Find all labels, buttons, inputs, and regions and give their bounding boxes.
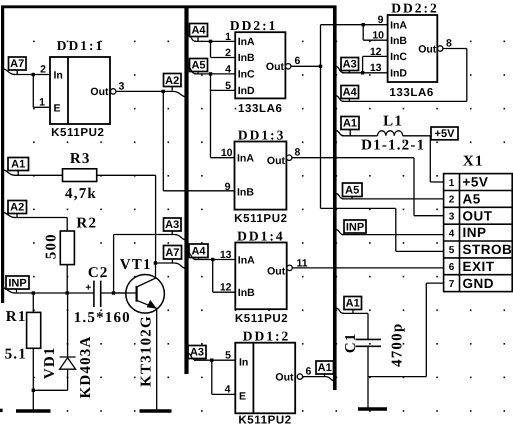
wire A3 mid	[114, 231, 186, 293]
svg-text:6: 6	[449, 262, 455, 273]
svg-text:1: 1	[39, 96, 45, 108]
svg-text:DD1:1: DD1:1	[57, 38, 105, 53]
wire A5 to DD2:1 pins 4,5 and DD1:3 pin 10	[189, 68, 236, 158]
svg-text:1: 1	[449, 178, 455, 189]
svg-text:Out: Out	[418, 43, 437, 55]
svg-text:13: 13	[370, 62, 382, 74]
svg-text:E: E	[239, 391, 246, 403]
wire A4 to DD1:4 pins 13,12	[189, 253, 236, 292]
svg-text:A1: A1	[11, 159, 25, 171]
svg-text:Out: Out	[267, 155, 286, 167]
svg-text:A1: A1	[346, 298, 360, 310]
node A5 top	[190, 59, 208, 72]
svg-text:6: 6	[306, 366, 312, 378]
svg-text:InA: InA	[238, 36, 255, 48]
svg-text:12: 12	[370, 46, 382, 58]
node INP right	[344, 220, 366, 233]
node A1	[8, 158, 29, 171]
svg-text:DD1:3: DD1:3	[238, 127, 286, 142]
svg-text:3: 3	[119, 80, 125, 92]
wire A2 to R2	[4, 213, 67, 232]
svg-text:DD2:1: DD2:1	[230, 18, 278, 33]
node STROB riser	[319, 65, 322, 68]
wire A4 to DD2:1 pins 1,2	[189, 35, 236, 58]
wire R2 bottom	[66, 265, 68, 293]
wire bus 1	[184, 6, 188, 375]
svg-text:2: 2	[225, 47, 231, 59]
svg-text:InC: InC	[238, 69, 255, 81]
svg-text:9: 9	[378, 14, 384, 26]
wire DD2:2 input tie pins 9,10	[363, 25, 387, 41]
svg-text:5: 5	[225, 80, 231, 92]
svg-text:VD1: VD1	[42, 346, 58, 379]
svg-text:KD403A: KD403A	[78, 335, 94, 398]
resistor R1	[32, 293, 34, 312]
logic gate DD1:3	[235, 142, 287, 210]
svg-text:DD1:4: DD1:4	[237, 229, 285, 244]
wire DD1:3 out pin 8 to X1 pin3	[292, 158, 444, 216]
wire DD1:1 out pin 3	[116, 90, 163, 92]
svg-text:INP: INP	[463, 225, 487, 240]
svg-text:EXIT: EXIT	[463, 259, 495, 274]
wire X1 pin7 GND to C1 ground	[368, 283, 444, 377]
svg-text:5.1: 5.1	[5, 347, 27, 363]
wire A3 to DD1:2 pins 5,4	[189, 354, 236, 395]
node A3 mid	[164, 218, 182, 231]
svg-text:8: 8	[295, 147, 301, 159]
svg-text:Out: Out	[266, 61, 285, 73]
svg-text:InB: InB	[238, 287, 255, 299]
svg-text:DD2:2: DD2:2	[391, 0, 439, 15]
wire DD2:1 out pin 6	[291, 65, 321, 67]
node A4 lower	[189, 244, 208, 258]
svg-text:133LA6: 133LA6	[238, 103, 283, 115]
wire R3 to collector node	[97, 175, 156, 263]
svg-text:10: 10	[372, 30, 384, 42]
svg-text:R2: R2	[76, 215, 97, 231]
wire DD2:2 out pin 8 to A4	[337, 49, 467, 102]
svg-text:6: 6	[295, 55, 301, 67]
node A5 right	[343, 183, 363, 197]
svg-text:2: 2	[40, 64, 46, 76]
svg-text:A4: A4	[191, 245, 206, 257]
wire left border	[1, 6, 4, 304]
svg-text:GND: GND	[463, 276, 495, 291]
svg-text:133LA6: 133LA6	[389, 87, 434, 99]
svg-text:10: 10	[221, 147, 233, 159]
svg-text:InB: InB	[237, 186, 254, 198]
svg-text:E: E	[54, 103, 61, 115]
svg-text:InA: InA	[237, 153, 254, 165]
wire R1 bottom	[33, 348, 67, 409]
svg-text:L1: L1	[383, 114, 403, 130]
svg-text:5: 5	[449, 245, 455, 256]
svg-text:4: 4	[225, 384, 231, 396]
node A4 top	[190, 24, 208, 37]
svg-text:2: 2	[449, 195, 455, 206]
svg-text:A1: A1	[343, 118, 357, 130]
svg-text:X1: X1	[463, 153, 484, 169]
svg-text:500: 500	[44, 233, 60, 259]
svg-text:5: 5	[225, 349, 231, 361]
svg-text:INP: INP	[8, 277, 26, 289]
svg-text:Out: Out	[275, 371, 294, 383]
logic gate DD2:2	[388, 15, 438, 82]
svg-text:7: 7	[449, 279, 455, 290]
wire A7 mid	[155, 259, 185, 268]
svg-text:DD1:2: DD1:2	[243, 329, 291, 344]
svg-text:STROB: STROB	[463, 242, 513, 257]
svg-text:+5V: +5V	[435, 128, 456, 140]
wire DD1:2 out pin 6 to bus	[303, 374, 334, 381]
svg-text:KT3102G: KT3102G	[139, 315, 155, 387]
svg-text:A4: A4	[191, 25, 206, 37]
svg-text:11: 11	[297, 257, 308, 269]
wire A2 bus entry	[163, 87, 234, 191]
wire A7 entry	[4, 69, 50, 107]
op-amp U DD1:1	[50, 57, 110, 124]
node A1 out	[316, 361, 334, 374]
svg-text:InC: InC	[390, 51, 407, 63]
ground VT1	[140, 409, 172, 413]
wire A3 to DD2:2 pins 12,13	[337, 56, 388, 72]
svg-text:A3: A3	[165, 219, 179, 231]
inductor L1	[337, 130, 444, 183]
svg-text:4700p: 4700p	[390, 323, 406, 367]
svg-text:K511PU2: K511PU2	[234, 213, 287, 225]
svg-text:OUT: OUT	[463, 208, 493, 223]
svg-text:In: In	[239, 357, 248, 369]
connector X1	[444, 174, 513, 292]
svg-text:A5: A5	[463, 192, 481, 207]
wire INP line	[4, 288, 136, 293]
node A1 right C1	[344, 297, 362, 310]
svg-text:C2: C2	[88, 265, 109, 281]
diode VD1	[60, 293, 76, 390]
resistor R3	[63, 169, 97, 182]
logic gate DD1:4	[235, 243, 286, 310]
svg-text:12: 12	[220, 282, 232, 294]
svg-text:A3: A3	[343, 59, 357, 71]
svg-text:1.5*160: 1.5*160	[74, 310, 131, 326]
svg-text:D1-1.2-1: D1-1.2-1	[361, 138, 425, 154]
node A3 right	[341, 58, 359, 71]
svg-text:InA: InA	[390, 19, 407, 31]
svg-text:A5: A5	[191, 60, 205, 72]
svg-text:A7: A7	[10, 58, 24, 70]
svg-text:8: 8	[446, 37, 452, 49]
svg-text:K511PU2: K511PU2	[238, 415, 291, 425]
svg-text:Out: Out	[90, 86, 109, 98]
svg-text:4,7k: 4,7k	[65, 186, 97, 202]
wire bus 2	[333, 6, 337, 391]
svg-text:A1: A1	[318, 362, 332, 374]
capacitor C2	[94, 281, 101, 308]
ground C1	[358, 407, 387, 410]
svg-text:InD: InD	[390, 67, 407, 79]
op-amp U DD1:2	[235, 343, 295, 414]
svg-text:13: 13	[220, 249, 232, 261]
svg-text:INP: INP	[346, 221, 364, 233]
svg-text:A4: A4	[343, 87, 358, 99]
svg-text:A5: A5	[345, 185, 359, 197]
svg-text:InD: InD	[238, 85, 255, 97]
svg-text:InA: InA	[238, 254, 255, 266]
node A1 right L1	[341, 117, 359, 130]
svg-text:Out: Out	[267, 265, 286, 277]
wire A5 to X1 pin2	[337, 194, 444, 199]
logic gate DD2:1	[235, 32, 285, 98]
node A3 lower	[188, 346, 206, 359]
node A2 lower	[8, 201, 27, 214]
svg-text:VT1: VT1	[120, 257, 152, 273]
svg-text:4: 4	[225, 63, 231, 75]
capacitor C1	[337, 308, 382, 409]
svg-text:9: 9	[225, 181, 231, 193]
node INP	[6, 276, 29, 289]
svg-text:+: +	[85, 283, 91, 294]
svg-text:3: 3	[449, 212, 455, 223]
svg-text:R1: R1	[6, 309, 27, 325]
node A7 mid	[164, 246, 182, 260]
resistor R2	[60, 231, 74, 265]
node A7	[9, 57, 27, 70]
wire top border	[1, 5, 336, 8]
svg-text:C1: C1	[343, 332, 359, 353]
node A4 right	[341, 86, 359, 99]
svg-text:+5V: +5V	[463, 175, 489, 190]
svg-text:In: In	[54, 70, 63, 82]
svg-text:4: 4	[449, 228, 455, 239]
node A2	[162, 90, 165, 93]
svg-text:K511PU2: K511PU2	[235, 313, 288, 325]
wire INP to X1 pin4	[337, 230, 444, 235]
svg-text:A2: A2	[165, 75, 179, 87]
svg-text:K511PU2: K511PU2	[51, 127, 104, 139]
svg-text:A2: A2	[10, 202, 24, 214]
wire DD1:4 out pin 11 to X1 pin6	[292, 267, 443, 269]
svg-text:A7: A7	[165, 247, 179, 259]
svg-text:R3: R3	[70, 151, 91, 167]
power +5V	[431, 127, 458, 140]
ground left	[16, 409, 51, 413]
wire A1 to R3	[4, 170, 63, 175]
svg-text:InB: InB	[390, 35, 407, 47]
svg-text:InB: InB	[238, 52, 255, 64]
